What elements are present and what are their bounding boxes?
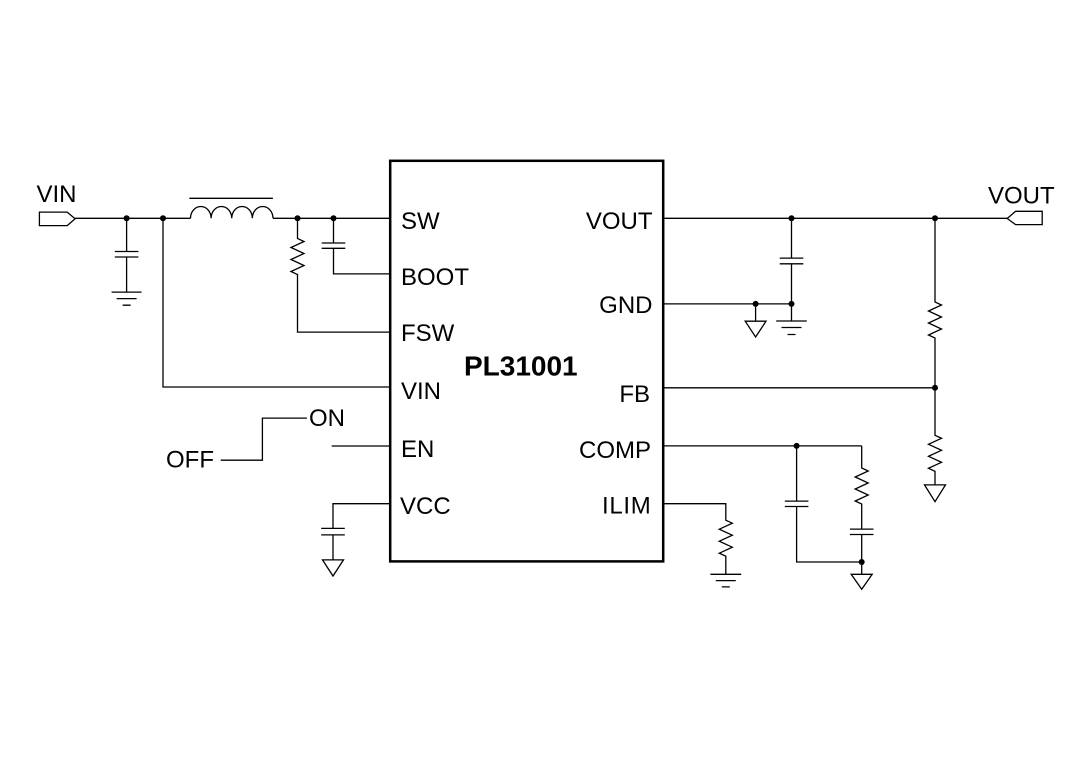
svg-text:VOUT: VOUT: [586, 208, 653, 235]
svg-text:PL31001: PL31001: [464, 351, 578, 382]
svg-text:VOUT: VOUT: [988, 183, 1055, 210]
svg-text:OFF: OFF: [166, 447, 214, 474]
svg-text:SW: SW: [401, 208, 440, 235]
svg-text:VCC: VCC: [400, 493, 451, 520]
svg-text:BOOT: BOOT: [401, 264, 469, 291]
svg-text:GND: GND: [599, 292, 652, 319]
svg-text:VIN: VIN: [37, 181, 77, 208]
svg-text:ILIM: ILIM: [602, 493, 651, 520]
svg-text:EN: EN: [401, 436, 434, 463]
svg-text:FB: FB: [619, 381, 650, 408]
svg-text:COMP: COMP: [579, 437, 651, 464]
svg-text:VIN: VIN: [401, 378, 441, 405]
svg-text:FSW: FSW: [401, 320, 455, 347]
svg-text:ON: ON: [309, 405, 345, 432]
